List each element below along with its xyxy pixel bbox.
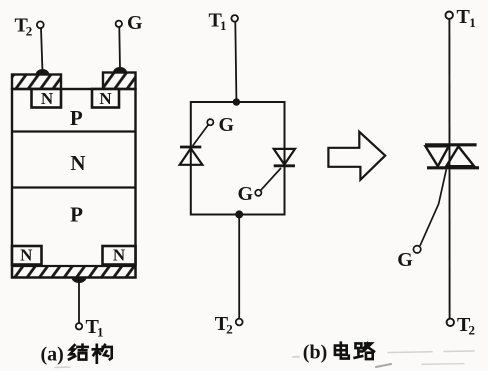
svg-text:G: G: [238, 183, 254, 205]
svg-text:2: 2: [469, 322, 476, 337]
svg-text:G: G: [397, 249, 413, 271]
svg-text:N: N: [20, 246, 33, 265]
svg-text:P: P: [70, 203, 83, 227]
svg-text:(b): (b): [303, 342, 327, 364]
svg-text:1: 1: [220, 18, 227, 33]
svg-text:2: 2: [226, 321, 233, 336]
svg-text:2: 2: [26, 23, 33, 38]
svg-text:(a): (a): [41, 344, 64, 366]
svg-text:N: N: [113, 246, 126, 265]
svg-text:N: N: [70, 151, 85, 175]
svg-text:G: G: [219, 114, 235, 136]
svg-text:P: P: [70, 106, 83, 130]
svg-text:G: G: [127, 12, 143, 34]
svg-text:1: 1: [469, 15, 476, 30]
svg-text:N: N: [99, 89, 112, 108]
svg-text:1: 1: [97, 325, 104, 340]
svg-text:N: N: [41, 89, 54, 108]
